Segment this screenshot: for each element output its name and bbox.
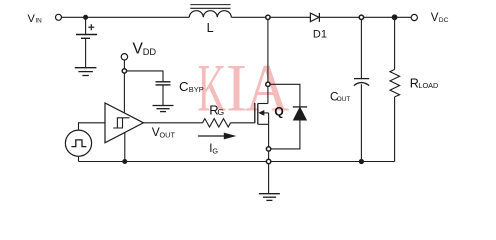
terminal Vdc xyxy=(411,14,417,20)
label VOUT xyxy=(152,125,176,139)
capacitor COUT plates xyxy=(354,79,369,86)
resistor RLOAD xyxy=(390,17,400,161)
wire top rail right xyxy=(319,16,411,18)
junction dot Cout bottom xyxy=(359,159,364,164)
wire source to buffer input xyxy=(79,123,106,130)
svg-text:G: G xyxy=(217,107,224,117)
terminal Vin xyxy=(56,14,62,20)
svg-text:IN: IN xyxy=(35,17,42,24)
label RG xyxy=(209,102,224,117)
svg-text:OUT: OUT xyxy=(337,96,351,103)
junction dot Vin xyxy=(83,15,88,20)
transistor Q mosfet xyxy=(255,103,269,124)
plus sign of input cap xyxy=(88,24,94,30)
wire drain vertical xyxy=(267,17,269,103)
wire source bottom stub xyxy=(78,156,80,161)
junction dot Rload top xyxy=(392,14,398,20)
label RLOAD xyxy=(410,77,438,91)
svg-text:L: L xyxy=(207,21,214,35)
square wave glyph xyxy=(71,140,86,147)
wire Cbyp branch xyxy=(124,71,163,82)
svg-text:OUT: OUT xyxy=(160,130,176,139)
wire body diode return xyxy=(269,120,300,149)
inductor L xyxy=(189,5,231,18)
junction ring Cout top xyxy=(359,15,363,19)
svg-text:BYP: BYP xyxy=(189,85,204,94)
schmitt symbol xyxy=(113,118,129,128)
wire Vin cap branch xyxy=(85,17,87,34)
wire body diode branch top xyxy=(268,84,300,107)
wire buffer output xyxy=(143,122,202,124)
wire top rail left xyxy=(62,16,190,18)
label CBYP xyxy=(179,79,204,94)
junction ring drain top xyxy=(266,15,270,19)
label VDD xyxy=(133,40,157,57)
svg-text:DD: DD xyxy=(143,47,157,57)
ground Cbyp xyxy=(153,106,174,112)
label COUT xyxy=(330,90,350,103)
wire Cbyp to ground xyxy=(162,85,164,105)
label VDC xyxy=(431,12,449,24)
junction ring source mid xyxy=(266,147,270,151)
wire source vertical xyxy=(268,113,270,162)
wire ground stub under source xyxy=(268,162,270,194)
junction dot buffer rail xyxy=(122,159,127,164)
wire Cout vertical top xyxy=(360,17,362,78)
junction ring source rail xyxy=(266,159,270,163)
watermark KIA xyxy=(198,50,290,127)
wire RG to gate xyxy=(231,122,255,124)
wire Cout vertical bottom xyxy=(360,84,362,161)
svg-text:C: C xyxy=(179,79,189,94)
terminal Vdd xyxy=(121,54,127,60)
diode D1 xyxy=(310,13,319,22)
body diode of Q xyxy=(293,107,307,120)
wire cap to ground xyxy=(85,38,87,67)
svg-text:DC: DC xyxy=(439,17,449,24)
junction ring Vdd xyxy=(122,69,126,73)
ground bottom xyxy=(259,194,280,201)
junction ring drain mid xyxy=(266,82,270,86)
wire top rail mid xyxy=(231,16,310,18)
capacitor CBYP plates xyxy=(156,82,171,85)
current IG arrow xyxy=(198,133,236,140)
svg-text:V: V xyxy=(28,13,36,25)
wire Vdd vertical xyxy=(123,60,125,113)
capacitor CIN top plate xyxy=(76,34,97,36)
label IG xyxy=(209,143,218,155)
wire bottom rail xyxy=(79,161,395,163)
wire buffer bottom to rail xyxy=(124,133,126,162)
svg-text:LOAD: LOAD xyxy=(418,81,438,90)
svg-text:Q: Q xyxy=(274,105,283,119)
resistor RG xyxy=(203,119,231,127)
svg-text:I: I xyxy=(226,50,247,126)
op-amp buffer U1 triangle xyxy=(105,103,143,143)
capacitor CIN bottom plate xyxy=(81,37,90,39)
svg-text:V: V xyxy=(431,12,439,24)
label VIN xyxy=(28,13,43,25)
source circle xyxy=(65,130,91,156)
svg-text:D1: D1 xyxy=(313,29,327,41)
svg-text:G: G xyxy=(212,146,218,155)
ground input xyxy=(75,68,97,76)
